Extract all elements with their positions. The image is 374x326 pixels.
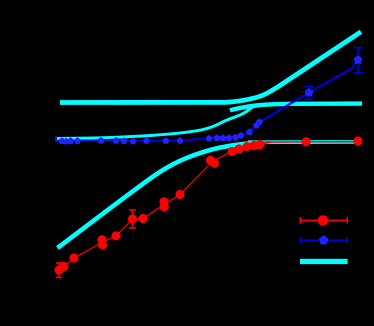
blue data polyline: [57, 60, 359, 141]
red markers: [54, 265, 63, 274]
red error bars: [56, 145, 239, 278]
dark red thin line over cyan at right: [262, 141, 362, 143]
thin cyan middle curve rising from blue data level: [57, 105, 260, 138]
thick cyan right horizontal: [230, 104, 362, 111]
cyan lower-branch curve: diagonal from bottom left flattening right: [58, 143, 253, 248]
blue error bars: [305, 48, 364, 100]
thin cyan line continuing right at y=142: [248, 140, 362, 144]
red data polyline: [59, 141, 358, 270]
legend: cyan entry: [300, 259, 348, 264]
legend: red entry: [300, 217, 347, 224]
legend: blue entry: [300, 237, 347, 244]
blue markers: [55, 136, 57, 142]
cyan upper-branch curve: flat left then diagonal to top right: [60, 32, 361, 103]
